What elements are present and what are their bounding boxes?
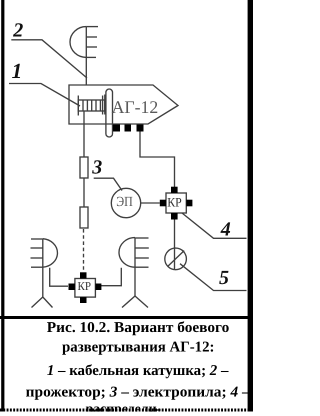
svg-text:развертывания АГ-12:: развертывания АГ-12: [62, 340, 215, 356]
svg-text:3: 3 [91, 157, 102, 179]
svg-text:1: 1 [12, 59, 23, 83]
svg-text:Рис. 10.2. Вариант боевого: Рис. 10.2. Вариант боевого [47, 320, 230, 336]
svg-text:1 – кабельная катушка; 2 –: 1 – кабельная катушка; 2 – [47, 363, 229, 379]
svg-text:2: 2 [12, 20, 23, 42]
svg-text:5: 5 [219, 267, 229, 289]
svg-text:ЭП: ЭП [116, 195, 133, 210]
svg-text:4: 4 [220, 219, 231, 241]
svg-text:КР: КР [167, 195, 182, 210]
svg-text:КР: КР [78, 279, 92, 293]
svg-text:прожектор; 3 – электропила; 4: прожектор; 3 – электропила; 4 – [26, 385, 251, 401]
svg-text:АГ-12: АГ-12 [112, 97, 159, 117]
